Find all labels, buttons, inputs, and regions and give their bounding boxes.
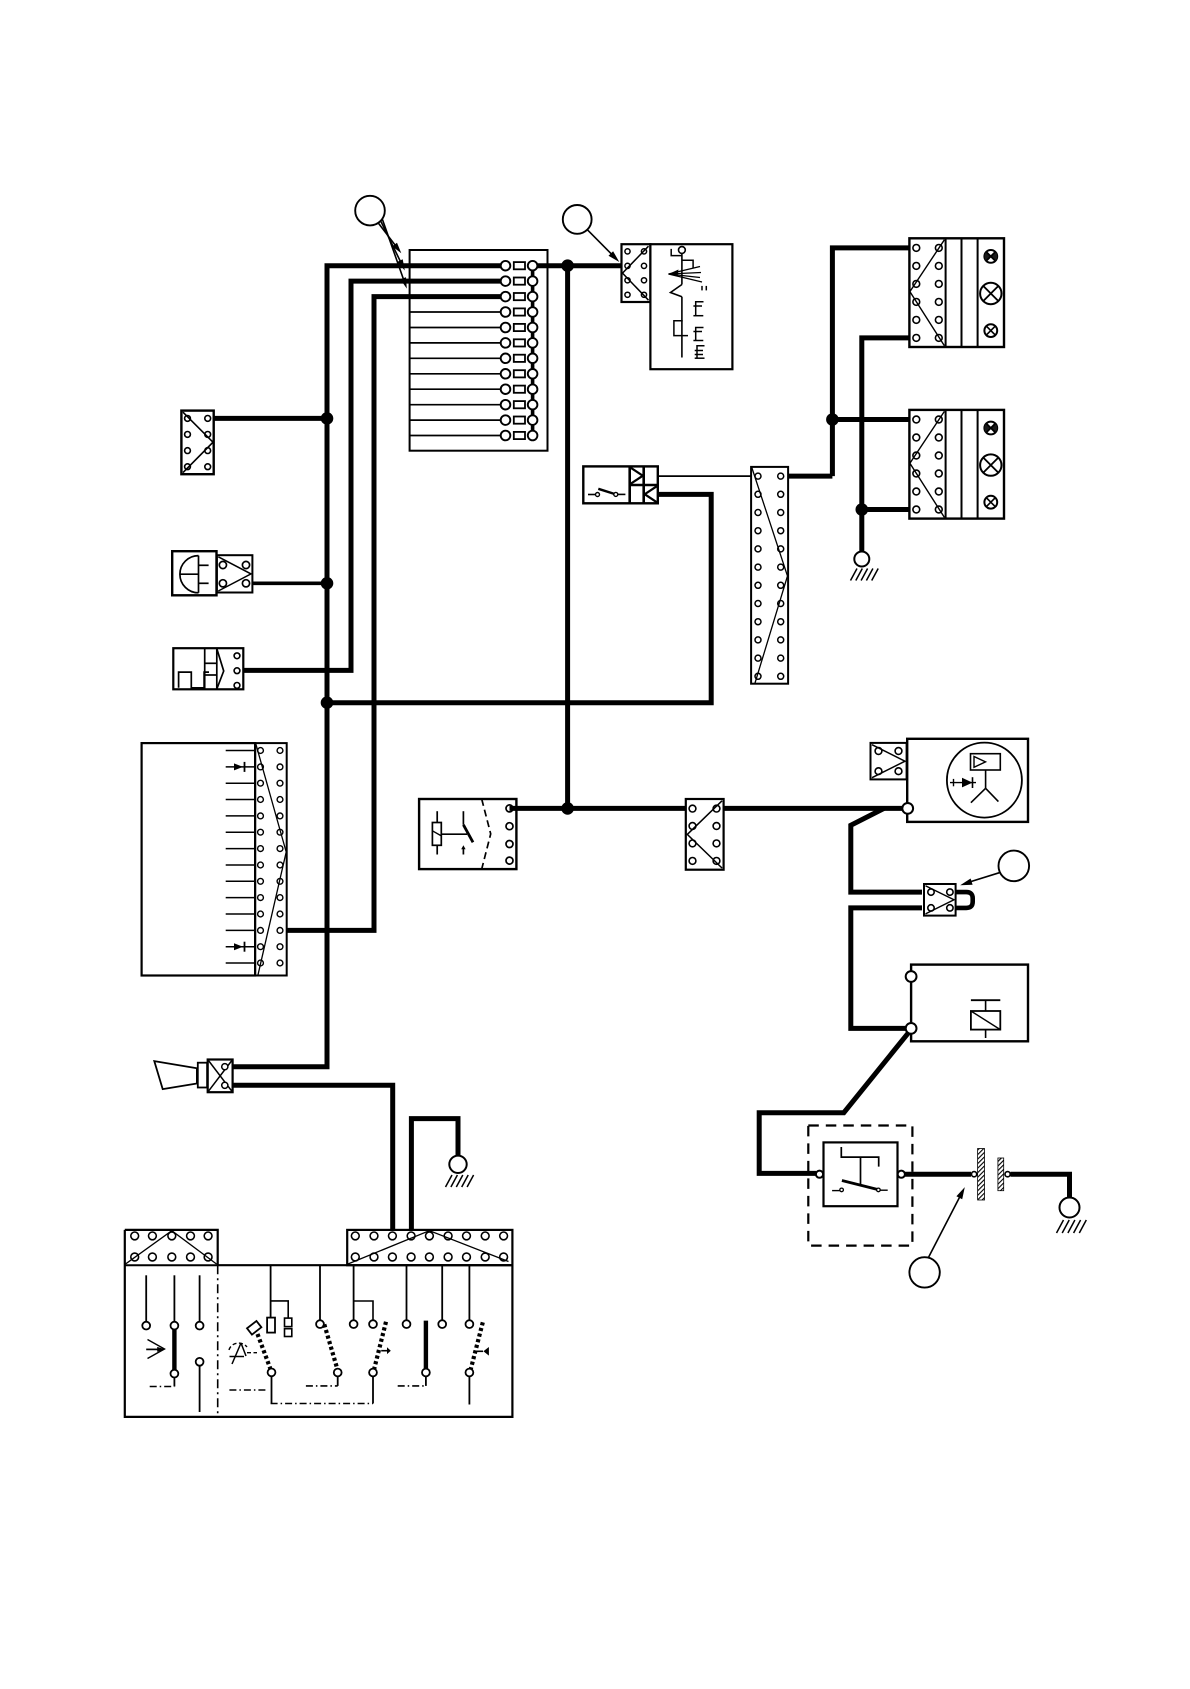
wire: bus B (fuse row2 to regulator) <box>243 281 500 670</box>
switch: column 2 closed contact (left box) <box>150 1275 179 1386</box>
CDI unit box <box>650 244 732 369</box>
harness connector strip <box>255 743 287 975</box>
harness internal leads <box>226 751 255 964</box>
lamp unit 2 <box>909 410 1004 519</box>
ground (spark plug) <box>1057 1198 1087 1234</box>
fuse F5 <box>410 323 538 333</box>
fuse F11 <box>410 415 538 425</box>
fuse F8 <box>410 369 538 379</box>
tail lamp (dark) of lamp unit 1 <box>984 250 997 263</box>
callout balloon 2 <box>563 205 620 262</box>
wire: lamp 1 return <box>862 338 910 552</box>
small bulb of lamp unit 2 <box>984 496 997 509</box>
dimmer indicator symbol <box>229 1343 257 1364</box>
wire: strip to headlamp bus <box>788 474 832 479</box>
wire: spark plug to ground <box>1011 1174 1070 1198</box>
junction node <box>321 413 333 425</box>
magneto output pin <box>902 803 913 814</box>
fuse F6 <box>410 338 538 348</box>
lamp unit 1 <box>909 238 1004 347</box>
spark plug gap terminal <box>1005 1172 1010 1177</box>
switch column 5 with arm <box>374 1265 410 1369</box>
left connector strip <box>126 1231 217 1264</box>
fuse F2 <box>501 276 538 286</box>
fuse F3 <box>501 292 538 302</box>
brake light switch <box>583 466 658 503</box>
junction node <box>562 260 574 272</box>
switch assembly outline <box>125 1264 218 1266</box>
wire: stop switch to spark plug <box>905 1172 971 1177</box>
fuse F1 <box>501 261 538 271</box>
diode (row 2) <box>234 762 245 772</box>
CDI unit connector <box>622 244 651 302</box>
coil pin (top) <box>906 971 917 982</box>
lever switch (handlebar) <box>154 1060 232 1093</box>
connector block (2x4, upper left) <box>181 411 213 475</box>
connector block (2x4, mid right) <box>686 799 724 870</box>
wire harness box <box>142 743 256 975</box>
fuse F4 <box>410 307 538 317</box>
spark plug electrode (hatched) <box>998 1158 1004 1191</box>
wire: coil to stop switch <box>759 1033 908 1174</box>
main bulb of lamp unit 1 <box>980 283 1001 304</box>
junction node <box>321 578 333 590</box>
wire: brake switch return <box>327 494 711 702</box>
ground (lamps) <box>851 552 879 581</box>
balloon 3 <box>960 851 1029 886</box>
lighting switch column <box>229 1265 291 1403</box>
wire: bus C (fuse row3 to harness box) <box>287 297 501 931</box>
wire: lamp 2 return <box>862 507 910 512</box>
wire: fuse row1 to CDI unit <box>537 263 621 268</box>
fuse F12 <box>410 431 538 441</box>
wire: magneto to joint connector <box>851 808 922 892</box>
ground (handlebar switch) <box>446 1156 474 1187</box>
horn connector <box>217 555 253 592</box>
junction node <box>562 803 574 815</box>
wire: center vertical bus <box>565 266 570 809</box>
turn signal arrow symbol <box>146 1340 165 1359</box>
flasher relay <box>173 648 243 689</box>
switch: column 3 (left box) <box>196 1275 204 1412</box>
terminal strip (right) <box>751 467 788 684</box>
junction node <box>856 504 868 516</box>
junction node <box>321 697 333 709</box>
spark plug body (hatched) <box>978 1149 985 1201</box>
fuse F10 <box>410 400 538 410</box>
switch: column 1 (left box) <box>142 1275 150 1329</box>
junction node <box>827 414 839 426</box>
callout balloon 1 <box>355 196 407 289</box>
wire: brake switch to terminal strip <box>658 475 751 477</box>
stop switch pin right <box>898 1171 905 1178</box>
magneto / generator unit <box>907 739 1028 822</box>
wire: headlamp bus <box>832 248 909 476</box>
wire: connector to magneto <box>724 806 903 811</box>
engine stop switch (dashed enclosure) <box>808 1126 912 1246</box>
fuse box <box>410 250 548 451</box>
right connector strip <box>347 1230 512 1265</box>
wire: joint connector to ignition coil <box>851 908 922 1029</box>
small bulb of lamp unit 1 <box>984 324 997 337</box>
fuse F7 <box>410 354 538 364</box>
stop switch box <box>824 1142 898 1206</box>
wire: main switch feed <box>510 806 686 811</box>
spark plug terminal <box>972 1172 977 1177</box>
fuse F9 <box>410 384 538 394</box>
balloon 4 <box>909 1187 964 1288</box>
diode (row 13) <box>234 942 245 952</box>
switch column 6 <box>438 1265 446 1328</box>
horn <box>172 551 216 595</box>
fuse bus links <box>531 270 535 431</box>
main bulb of lamp unit 2 <box>980 454 1001 475</box>
wire: to lamp 2 <box>832 417 909 422</box>
main (ignition) switch <box>419 799 516 869</box>
wire: joint connector loop <box>956 892 973 908</box>
tail lamp (dark) of lamp unit 2 <box>984 422 997 435</box>
ignition coil unit <box>911 965 1028 1042</box>
closed contact column <box>398 1321 430 1386</box>
switch columns 3-4 <box>350 1265 377 1403</box>
coil pin (bottom) <box>906 1023 917 1034</box>
dash-dot link <box>271 1403 373 1405</box>
switch column 2 <box>306 1265 342 1386</box>
joint connector <box>924 884 956 916</box>
stop switch pin left <box>816 1171 823 1178</box>
divider (dash-dot) <box>217 1265 219 1417</box>
wire: lever switch to bottom switch assy <box>233 1085 393 1230</box>
switch column 7 with arm <box>466 1265 489 1404</box>
wire: bus A (fuse row1 feed, left vertical) <box>233 266 501 1067</box>
wire: connector to bus A <box>214 416 327 421</box>
wire: switch assy ground lead <box>411 1119 458 1230</box>
magneto connector <box>871 743 907 780</box>
wire: horn to bus A <box>252 581 327 585</box>
